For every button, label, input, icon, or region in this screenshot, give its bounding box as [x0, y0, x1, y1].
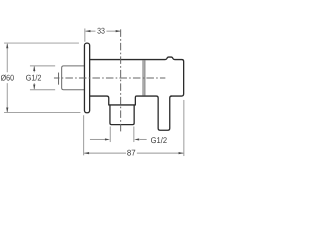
wall plate (escutcheon profile) [84, 43, 89, 113]
horizontal centreline of inlet [54, 77, 165, 79]
dim O60: arrow down [6, 107, 8, 112]
dim O60: bottom extension line [4, 112, 80, 114]
right protrusion (shower hose holder) [136, 96, 171, 130]
dim G1/2 left: bottom extension line [30, 89, 55, 91]
dim 87: arrow left [84, 152, 89, 154]
dim 87: left extension line [83, 115, 85, 155]
dim 87: arrow right [179, 152, 184, 154]
vertical centreline of outlet [120, 29, 122, 131]
svg-text:33: 33 [97, 26, 105, 36]
dim 33: arrow right [116, 30, 121, 32]
dim 33: left extension line [84, 28, 86, 41]
dim G1/2 left: dimension line [33, 66, 35, 72]
svg-text:87: 87 [127, 147, 136, 157]
dim O60: arrow up [6, 43, 8, 48]
dim G1/2 left: arrow down [33, 85, 35, 90]
dim 87: right extension line [183, 100, 185, 156]
dim 33: dimension line [85, 30, 95, 32]
dim G1/2 left: arrow up [33, 66, 35, 71]
dim G1/2 bottom: right extension line [133, 126, 135, 142]
svg-text:Ø60: Ø60 [1, 72, 15, 82]
seam line 2 [144, 60, 146, 95]
dim O60: dimension line [6, 44, 8, 72]
centre mark vertical tick [58, 73, 60, 85]
svg-text:G1/2: G1/2 [26, 72, 42, 82]
dim G1/2 bottom: left tail + arrow [90, 138, 105, 140]
dim O60: top extension line [4, 42, 79, 44]
svg-text:G1/2: G1/2 [151, 135, 168, 145]
centre outlet upper part [90, 96, 137, 105]
dim 87: dimension line [84, 152, 126, 154]
inlet pipe G1/2 rear connector [62, 66, 85, 90]
seam line 1 [142, 60, 144, 95]
dim G1/2 left: top extension line [30, 65, 55, 67]
dim G1/2 bottom: right arrow + tail [134, 138, 139, 140]
centre outlet threaded part G1/2 [110, 105, 134, 125]
dim 33: arrow left [85, 30, 90, 32]
dim G1/2 bottom: left extension line [109, 126, 111, 142]
body outline with top bump and right cap [90, 57, 184, 96]
